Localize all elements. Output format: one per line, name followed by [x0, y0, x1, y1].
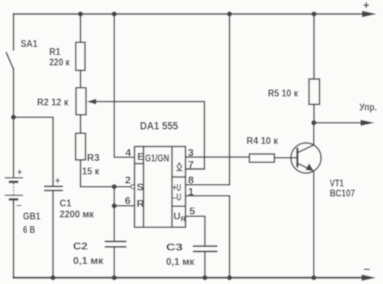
junction bottom rail at emitter [311, 275, 316, 280]
svg-text:DA1 555: DA1 555 [140, 121, 178, 133]
wire top rail to R5 [313, 14, 315, 79]
battery GB1 [5, 178, 23, 200]
svg-text:R3: R3 [87, 152, 100, 164]
resistor R5 [309, 79, 320, 104]
wire node C1 branch horizontal [14, 117, 54, 185]
wire top +rail [14, 13, 365, 15]
wire R2 to R3 [80, 115, 82, 134]
wire Upr output [314, 122, 363, 124]
svg-text:R4 10 к: R4 10 к [247, 135, 279, 147]
svg-text:8: 8 [188, 175, 194, 187]
wire top rail to R1 [80, 14, 82, 42]
svg-text:+: + [17, 167, 22, 177]
svg-text:0,1 мк: 0,1 мк [166, 256, 195, 268]
svg-text:C2: C2 [73, 241, 88, 253]
capacitor C1 (electrolytic) [44, 186, 63, 190]
wire C1 to bottom rail [52, 191, 54, 278]
wire battery to bottom rail [13, 200, 15, 278]
resistor R2 wiper arrow [87, 99, 96, 105]
svg-text:+: + [55, 175, 60, 185]
wire top rail to pin4 [114, 14, 134, 157]
svg-text:C1: C1 [60, 197, 72, 209]
svg-text:–: – [16, 200, 22, 211]
wire R2 wiper to pin7 [96, 102, 205, 169]
junction bottom rail at pin1 [227, 275, 232, 280]
svg-text:+: + [363, 0, 369, 12]
svg-text:S: S [137, 181, 144, 193]
wire bottom -rail [14, 277, 364, 279]
svg-text:220 к: 220 к [49, 56, 70, 68]
svg-text:0,1 мк: 0,1 мк [73, 255, 104, 267]
junction top rail at pin4 branch [112, 12, 117, 17]
junction top rail at R5 [312, 12, 317, 17]
junction bottom rail at C3 [202, 275, 207, 280]
transistor Q1 VT1 circle [291, 143, 321, 173]
wire pin5 to C3 [186, 216, 205, 246]
svg-text:6: 6 [125, 195, 131, 207]
svg-text:Упр.: Упр. [359, 102, 376, 114]
svg-text:2: 2 [125, 174, 131, 186]
chip DA1 open-collector symbol [176, 163, 182, 171]
wire R4 to VT1 base [274, 157, 297, 159]
wire SA1 to battery [13, 69, 15, 177]
arrow Upr output [361, 120, 375, 126]
transistor VT1 base bar [296, 148, 298, 168]
wire VT1 emitter to bottom rail [313, 171, 315, 278]
wire pin3 to R4 [186, 156, 250, 158]
svg-text:R: R [137, 198, 145, 210]
svg-text:BC107: BC107 [330, 188, 355, 200]
resistor R1 [76, 42, 85, 70]
svg-text:GB1: GB1 [23, 211, 41, 223]
capacitor C3 [193, 246, 218, 251]
transistor VT1 collector stroke [297, 145, 313, 153]
svg-text:4: 4 [125, 147, 131, 159]
svg-text:6 В: 6 В [23, 224, 36, 236]
svg-text:2200 мк: 2200 мк [60, 209, 95, 221]
svg-text:–: – [364, 261, 371, 275]
wire left rail upper (SA1 top lead) [13, 14, 15, 50]
wire R5 to collector node [313, 104, 315, 122]
junction node R (pin6) [112, 203, 117, 208]
svg-text:C3: C3 [166, 242, 183, 254]
resistor R2 (trimmer) body [76, 88, 86, 115]
svg-text:–U: –U [173, 192, 182, 203]
svg-text:7: 7 [188, 159, 194, 171]
svg-text:R5 10 к: R5 10 к [268, 88, 299, 100]
wire pin6 to chip [114, 205, 134, 207]
svg-text:3: 3 [188, 147, 194, 159]
svg-text:1: 1 [188, 186, 194, 198]
junction top rail at R1 [78, 12, 83, 17]
chip DA1 inversion circle on S input [131, 185, 135, 189]
junction bottom rail at C2 [112, 275, 117, 280]
wire C2 to bottom rail [113, 247, 115, 278]
capacitor C2 [105, 241, 127, 246]
wire collector node to VT1 [313, 123, 315, 145]
junction top rail at pin8 branch [227, 12, 232, 17]
resistor R3 [76, 133, 86, 160]
junction SA1 wire / C1 branch [11, 115, 16, 120]
svg-text:G1/GN: G1/GN [145, 152, 169, 164]
junction collector / Upr [311, 120, 316, 125]
resistor R4 [249, 154, 274, 162]
junction bottom rail at C1 [51, 275, 56, 280]
op-amp U1 : timer chip DA1 555 body [135, 147, 186, 228]
wire node S-R vertical to C2 [113, 187, 115, 241]
switch SA1 [6, 53, 13, 69]
svg-text:R2 12 к: R2 12 к [37, 97, 69, 109]
wire pin1 to bottom rail [186, 196, 230, 278]
arrow -supply [362, 275, 377, 281]
arrow +supply [362, 11, 377, 17]
wire pin8 to top rail [186, 14, 230, 185]
svg-text:5: 5 [189, 206, 195, 218]
svg-text:15 к: 15 к [82, 166, 100, 178]
junction node S (R3 / pin2) [112, 184, 117, 189]
wire R3 to pin2 node [81, 160, 132, 187]
wire R1 to R2 [80, 70, 82, 87]
wire C3 to bottom rail [204, 252, 206, 278]
transistor VT1 emitter stroke with arrow [297, 163, 313, 171]
svg-text:E: E [137, 151, 144, 163]
svg-text:SA1: SA1 [21, 38, 38, 50]
